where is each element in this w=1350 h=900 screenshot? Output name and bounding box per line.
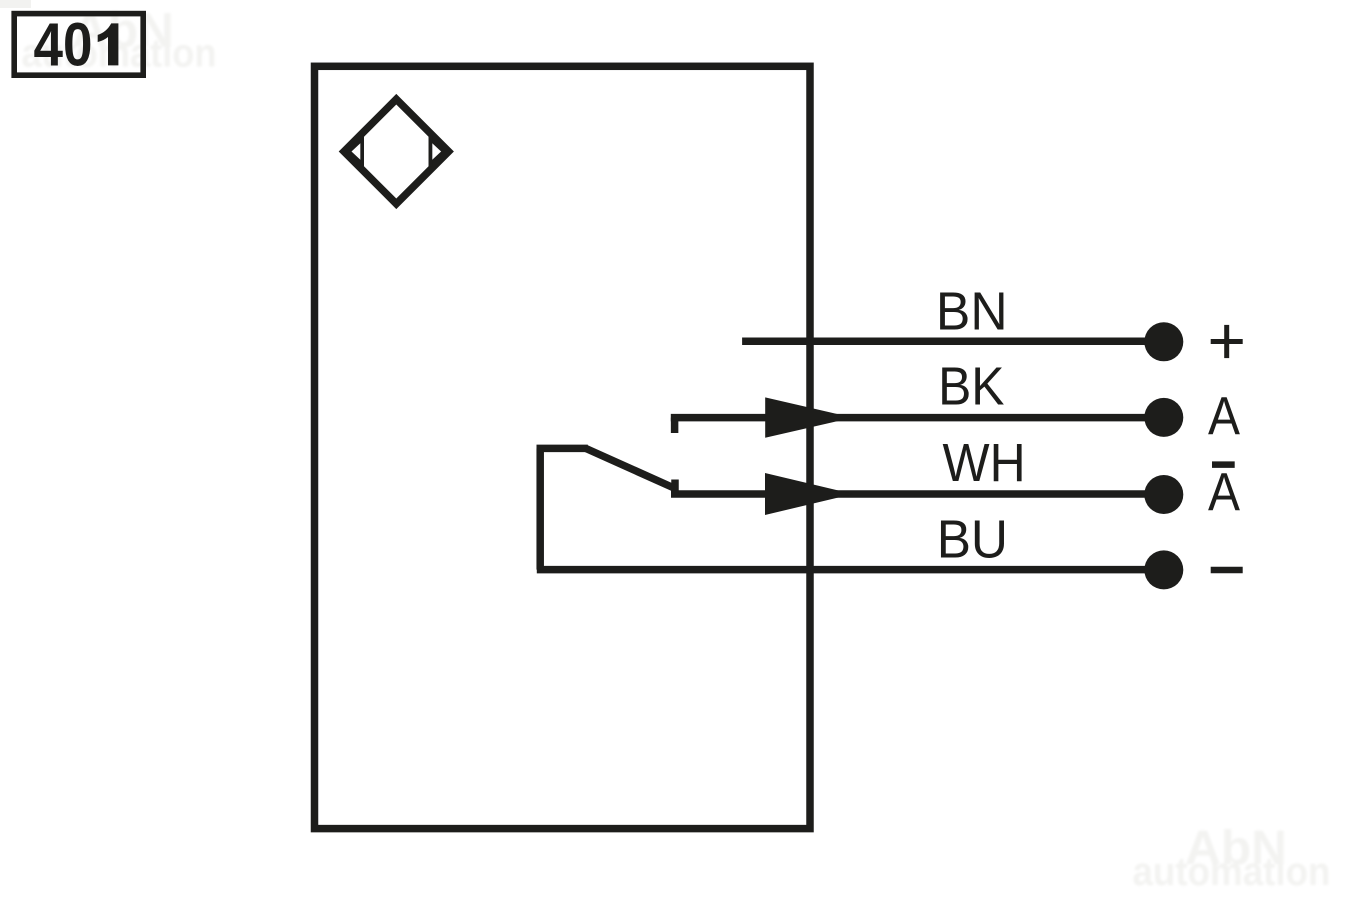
wire BN — [742, 338, 1164, 346]
arrow on WH — [765, 473, 853, 515]
proximity sensor symbol: diamond — [344, 99, 449, 204]
svg-text:BN: BN — [936, 282, 1008, 342]
label box 401 — [14, 14, 143, 76]
corner artifact patch — [0, 0, 31, 8]
wire BK — [671, 414, 1164, 422]
sensor body rectangle — [315, 66, 811, 828]
switch common vertical — [536, 448, 544, 569]
svg-text:WH: WH — [943, 433, 1026, 493]
terminal dot minus — [1144, 550, 1183, 589]
proximity symbol right triangle — [430, 139, 443, 164]
svg-text:A: A — [1208, 387, 1240, 447]
svg-text:BU: BU — [937, 510, 1008, 570]
watermark top-left — [22, 5, 217, 76]
wire BK start tick — [671, 418, 679, 433]
wire BU — [537, 566, 1164, 574]
svg-text:automation: automation — [1133, 850, 1331, 894]
svg-text:A: A — [1208, 463, 1240, 523]
terminal dot A-bar — [1144, 475, 1183, 514]
terminal dot + — [1144, 322, 1183, 361]
svg-text:BK: BK — [938, 357, 1004, 417]
terminal label minus — [1211, 567, 1243, 574]
svg-text:40: 40 — [34, 10, 93, 79]
terminal label plus — [1211, 339, 1243, 344]
arrow on BK — [765, 397, 853, 437]
proximity symbol left triangle — [349, 139, 362, 164]
watermark bottom-right — [1133, 822, 1331, 894]
wire WH start tick — [671, 480, 679, 495]
terminal dot A — [1144, 398, 1183, 437]
switch top horizontal — [537, 445, 588, 453]
switch lever diagonal — [586, 449, 674, 489]
wire WH — [671, 490, 1164, 498]
